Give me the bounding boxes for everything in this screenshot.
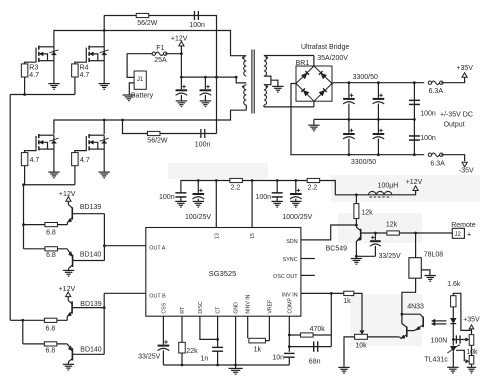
svg-text:+12V: +12V — [59, 191, 76, 198]
svg-text:25A: 25A — [154, 57, 167, 64]
svg-text:+35V: +35V — [456, 65, 473, 72]
svg-text:+/-35V DC: +/-35V DC — [440, 112, 473, 119]
svg-text:J1: J1 — [137, 77, 144, 83]
svg-text:100µH: 100µH — [378, 182, 399, 189]
svg-text:+: + — [467, 229, 472, 238]
svg-text:R3: R3 — [29, 65, 38, 72]
svg-text:100N: 100N — [431, 337, 448, 344]
svg-text:100n: 100n — [189, 22, 205, 29]
svg-text:1k: 1k — [254, 346, 262, 353]
svg-text:12k: 12k — [361, 210, 373, 217]
svg-text:BC549: BC549 — [326, 245, 348, 252]
svg-text:CT: CT — [216, 306, 222, 314]
svg-text:SYNC: SYNC — [283, 257, 298, 263]
svg-text:OSC OUT: OSC OUT — [273, 274, 298, 280]
svg-text:1n: 1n — [201, 355, 209, 362]
svg-text:OUT A: OUT A — [149, 246, 165, 252]
svg-text:INV IN: INV IN — [282, 292, 298, 298]
svg-text:6.3A: 6.3A — [430, 161, 445, 168]
svg-text:35A/200V: 35A/200V — [317, 55, 348, 62]
svg-text:4.7: 4.7 — [30, 157, 40, 164]
svg-text:OUT B: OUT B — [149, 293, 166, 299]
svg-text:+12V: +12V — [171, 35, 188, 42]
svg-text:BD140: BD140 — [80, 346, 102, 353]
svg-text:4.7: 4.7 — [80, 157, 90, 164]
svg-text:SDN: SDN — [286, 239, 297, 245]
svg-text:Output: Output — [444, 121, 465, 128]
svg-text:COMP: COMP — [287, 297, 293, 313]
svg-text:+12V: +12V — [59, 286, 76, 293]
svg-text:F1: F1 — [156, 45, 164, 52]
svg-text:1000/25V: 1000/25V — [282, 214, 312, 221]
svg-text:BD140: BD140 — [80, 251, 102, 258]
svg-text:VREF: VREF — [267, 300, 273, 314]
svg-text:-35V: -35V — [459, 168, 474, 175]
svg-text:2.2: 2.2 — [231, 185, 241, 192]
svg-text:1.6k: 1.6k — [447, 281, 461, 288]
svg-text:BD139: BD139 — [80, 204, 102, 211]
svg-text:56/2W: 56/2W — [137, 20, 158, 27]
svg-text:10k: 10k — [355, 343, 367, 350]
svg-text:6.8: 6.8 — [46, 252, 56, 259]
svg-text:SG3525: SG3525 — [209, 269, 237, 278]
svg-text:Ultrafast Bridge: Ultrafast Bridge — [301, 44, 349, 51]
svg-text:TL431c: TL431c — [424, 357, 448, 364]
svg-text:470k: 470k — [310, 326, 326, 333]
svg-text:J2: J2 — [455, 232, 462, 238]
svg-text:GND: GND — [234, 302, 240, 314]
svg-text:NINV IN: NINV IN — [246, 294, 252, 313]
svg-text:CSS: CSS — [161, 302, 167, 313]
svg-text:BD139: BD139 — [80, 301, 102, 308]
svg-text:+35V: +35V — [463, 317, 480, 324]
svg-text:78L08: 78L08 — [424, 252, 444, 259]
svg-text:4.7: 4.7 — [80, 72, 90, 79]
svg-text:12k: 12k — [386, 222, 398, 229]
svg-text:6.8: 6.8 — [46, 348, 56, 355]
svg-text:100/25V: 100/25V — [185, 214, 211, 221]
svg-text:100n: 100n — [195, 142, 211, 149]
svg-text:DISC: DISC — [198, 301, 204, 314]
svg-text:3300/50: 3300/50 — [353, 74, 378, 81]
svg-text:2.2: 2.2 — [308, 184, 318, 191]
svg-text:13: 13 — [214, 233, 220, 239]
svg-text:+12V: +12V — [406, 179, 423, 186]
svg-text:100n: 100n — [255, 194, 271, 201]
svg-text:1k: 1k — [343, 298, 351, 305]
svg-text:10k: 10k — [466, 349, 478, 356]
svg-text:4.7: 4.7 — [29, 72, 39, 79]
svg-text:22k: 22k — [186, 348, 198, 355]
svg-text:3300/50: 3300/50 — [351, 159, 376, 166]
svg-text:68n: 68n — [309, 359, 321, 366]
svg-text:Battery: Battery — [131, 93, 154, 100]
svg-text:100n: 100n — [420, 135, 436, 142]
svg-text:100n: 100n — [420, 110, 436, 117]
svg-text:RT: RT — [180, 306, 186, 314]
svg-text:56/2W: 56/2W — [147, 138, 168, 145]
svg-text:100n: 100n — [159, 194, 175, 201]
svg-text:10n: 10n — [272, 354, 284, 361]
svg-text:4N33: 4N33 — [407, 304, 424, 311]
svg-text:R4: R4 — [80, 65, 89, 72]
svg-text:6.8: 6.8 — [46, 230, 56, 237]
svg-text:6.3A: 6.3A — [429, 88, 444, 95]
svg-text:15: 15 — [250, 233, 256, 239]
svg-text:6.8: 6.8 — [46, 326, 56, 333]
svg-text:Remote: Remote — [451, 222, 476, 229]
svg-text:33/25V: 33/25V — [379, 253, 402, 260]
svg-text:33/25V: 33/25V — [138, 354, 161, 361]
